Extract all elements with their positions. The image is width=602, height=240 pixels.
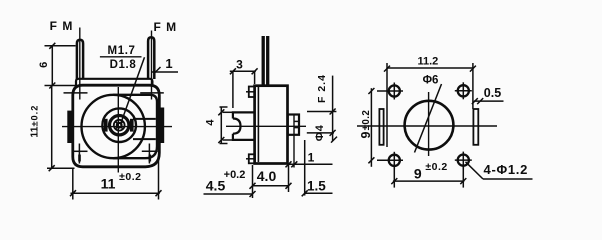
hole top-left <box>389 85 400 96</box>
lower mounting tab <box>249 154 255 163</box>
ext 11.2 right <box>472 63 474 109</box>
notch protrusion <box>233 112 255 139</box>
dim phi4 / F2.4 lines <box>307 111 336 113</box>
svg-text:0.5: 0.5 <box>484 86 501 100</box>
top pin datum cross right <box>140 92 164 94</box>
inner stadium cavity <box>113 95 157 158</box>
top pin datum cross left <box>64 92 88 94</box>
svg-text:F M: F M <box>153 20 177 34</box>
dim 1 line <box>151 71 178 73</box>
svg-text:F 2.4: F 2.4 <box>316 74 328 103</box>
svg-text:4.5: 4.5 <box>206 178 226 194</box>
svg-text:11±0.2: 11±0.2 <box>28 105 40 138</box>
bottom peg mark left <box>78 155 81 162</box>
svg-text:D1.8: D1.8 <box>110 59 137 71</box>
view centerline horizontal <box>62 126 172 128</box>
ext 11.2 left <box>386 63 388 147</box>
4-phi1.2 leader and underline <box>466 162 484 179</box>
dim 4 (left) <box>220 107 222 144</box>
notch semicircle <box>233 119 241 134</box>
svg-text:9: 9 <box>414 165 422 181</box>
dim 1.5 <box>305 192 333 194</box>
buzzer body outline <box>73 85 160 167</box>
svg-text:Φ6: Φ6 <box>423 74 439 86</box>
slot bar right <box>130 119 134 132</box>
hole bottom-right <box>458 155 469 166</box>
ext body top <box>45 85 78 87</box>
dim 3 <box>230 70 256 72</box>
nozzle seam <box>293 115 295 168</box>
ring middle thick <box>110 116 129 135</box>
svg-text:M1.7: M1.7 <box>108 45 136 57</box>
right pin centerline stub <box>151 31 153 100</box>
dim 0.5 <box>474 100 504 102</box>
side body <box>255 86 288 164</box>
coil big circle <box>82 95 145 158</box>
ext bottom right <box>158 158 160 200</box>
sound nozzle <box>288 115 299 135</box>
side centerline <box>226 125 306 127</box>
phillips cross <box>115 121 123 129</box>
phi6 leader <box>415 84 442 153</box>
dim 4.5 <box>204 193 253 195</box>
ext pin top <box>45 45 76 47</box>
svg-text:4: 4 <box>205 119 217 126</box>
screw center <box>117 123 122 128</box>
nozzle bore lines <box>294 120 299 122</box>
right side tab <box>160 108 164 144</box>
footprint centerline horizontal <box>357 125 497 127</box>
left side tab <box>67 111 72 143</box>
svg-text:11.2: 11.2 <box>417 56 438 68</box>
bottom peg mark right <box>149 155 152 162</box>
dim 9 bottom <box>393 180 464 182</box>
svg-text:±0.2: ±0.2 <box>119 171 141 183</box>
right pin (lead M) <box>148 37 154 79</box>
pad right <box>473 109 478 145</box>
ext bottom left <box>72 168 74 200</box>
dim 1 (nozzle) <box>289 163 333 165</box>
svg-text:6: 6 <box>38 62 50 68</box>
svg-text:3: 3 <box>236 57 243 71</box>
dim 9 left line <box>370 88 372 167</box>
ring small <box>114 120 125 131</box>
hole bottom-left <box>389 155 400 166</box>
svg-text:11: 11 <box>101 175 116 191</box>
pad left <box>379 109 383 145</box>
dim 11 bottom line <box>71 192 160 194</box>
svg-text:1.5: 1.5 <box>307 179 326 194</box>
view centerline vertical <box>117 87 119 173</box>
inner wall line <box>257 87 259 162</box>
svg-text:4.0: 4.0 <box>257 168 277 184</box>
side pins <box>262 36 265 86</box>
svg-text:1: 1 <box>165 56 172 71</box>
dim 6 line <box>51 46 53 86</box>
dim 11.2 line <box>387 67 474 69</box>
svg-text:Φ4: Φ4 <box>314 124 326 141</box>
svg-text:1: 1 <box>308 151 315 165</box>
slot line lower <box>133 138 156 140</box>
svg-text:4-Φ1.2: 4-Φ1.2 <box>484 162 529 177</box>
svg-text:F M: F M <box>50 19 74 33</box>
speaker hole circle <box>405 101 454 150</box>
upper mounting tab <box>249 87 255 98</box>
slot bar left <box>104 119 108 132</box>
hole top-right <box>458 85 469 96</box>
svg-text:9±0.2: 9±0.2 <box>359 110 373 139</box>
dim 4.0 <box>253 185 289 187</box>
slot line upper <box>133 118 156 120</box>
left pin (lead F) <box>77 40 83 79</box>
ring outer <box>102 108 136 142</box>
svg-text:±0.2: ±0.2 <box>425 161 447 173</box>
left pin centerline stub <box>79 28 81 100</box>
label leader M1.7/D1.8 <box>121 57 145 123</box>
dim 11 left line <box>51 85 53 168</box>
top cap <box>76 79 152 85</box>
footprint centerline vertical <box>428 92 430 156</box>
fraction bar <box>100 56 142 58</box>
svg-text:+0.2: +0.2 <box>224 169 246 181</box>
ext body bottom <box>47 167 75 169</box>
